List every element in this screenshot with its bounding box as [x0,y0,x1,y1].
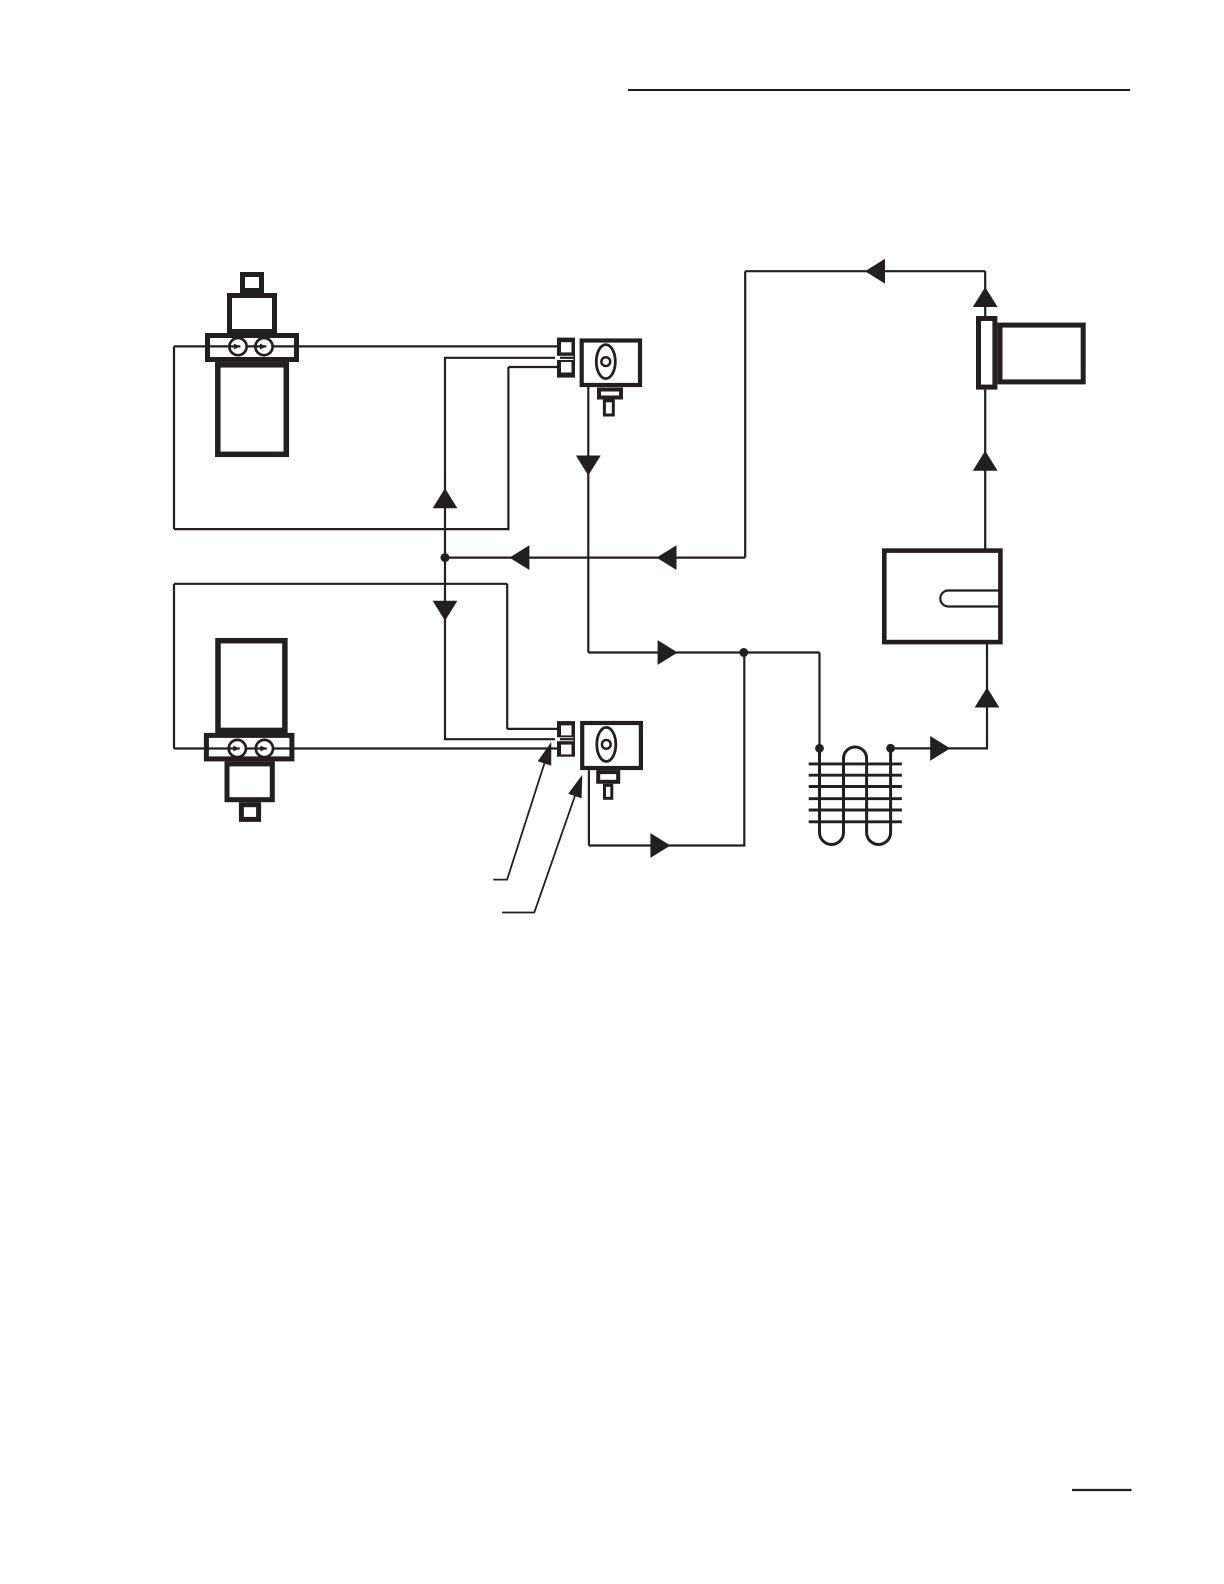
coil fin line 5 [809,809,902,812]
receiver-drier pickup tube [940,591,999,607]
flow arrow up below receiver [975,688,1000,708]
A2 port arrow 1 [233,746,239,752]
coil fin line 6 [809,820,902,823]
wire SV2 output run up to J2 [589,653,744,846]
accumulator A1 cylinder [218,365,286,455]
SV1 coil inner circle [601,357,610,366]
wire receiver to condenser coil [891,642,987,748]
wire lower loop right edge [506,584,508,729]
A1 port line gap 1 [240,345,245,348]
wire upper loop top (through A1 ports to valve SV1) [174,345,560,347]
SV2 coil ellipse [597,727,616,761]
A2 port line gap 2 [267,747,272,750]
flow arrow up to compressor [973,451,998,471]
wire upper loop right edge [507,367,509,530]
condenser coil tube [820,747,891,845]
leader arrowhead 2 [568,775,582,799]
accumulator A2 cylinder [218,641,285,731]
flow arrow left on top run [865,259,885,284]
SV2 connector slot 2 [561,745,572,755]
SV1 connector slot 2 [561,362,572,373]
wire lower loop left edge [173,584,175,749]
wire SV2 output drop [588,770,590,845]
accumulator A1 block [230,296,275,332]
compressor sleeve [979,319,995,388]
accumulator A2 port band [206,735,292,759]
A2 port line gap 1 [240,747,245,750]
SV1 stem upper [599,390,621,398]
SV1 connector slot 1 [561,342,572,352]
wire right riser up [744,271,746,557]
accumulator A2 port circle 2 [256,740,273,757]
footer rule [1072,1489,1132,1491]
accumulator A1 cap [243,275,262,291]
accumulator A2 block [227,764,272,800]
flow arrow down on J1 drop [433,601,458,621]
wire J1 down to SV2 middle slot [445,558,574,740]
wire upper loop left edge [173,346,175,529]
flow arrow up on J1 riser [433,488,458,508]
wire upper loop bottom edge [174,528,508,530]
solenoid valve SV2 body [582,723,641,768]
A2 port arrow 2 [260,746,266,752]
accumulator A1 port circle 2 [255,338,272,355]
coil outlet dot [886,744,895,753]
flow arrow right from coil [930,736,950,761]
wire coil feed drop [818,653,820,749]
SV2 connector gap [555,737,574,741]
wire compressor suction drop [984,271,986,318]
accumulator A1 port band [208,336,297,360]
SV2 stem lower [605,785,612,798]
accumulator A1 port circle 1 [229,338,246,355]
wire top run to compressor [745,270,985,272]
leader arrowhead 1 [538,742,552,766]
coil inlet dot [815,744,824,753]
wire lower loop into SV2 top slot [507,728,560,730]
receiver-drier box [884,551,1000,643]
flow arrow down on SV1 drop [576,456,601,476]
flow arrow left 2 on J1 wire [657,545,677,570]
header rule [628,89,1130,91]
wire upper loop into SV1 lower slot [508,366,560,368]
A1 port line gap 2 [266,345,271,348]
SV1 coil ellipse [596,345,615,379]
SV2 coil inner circle [602,740,611,749]
solenoid valve SV1 body [582,341,640,386]
A1 port arrow 1 [234,344,240,350]
flow arrow left 1 on J1 wire [509,545,529,570]
accumulator A2 cap [241,805,258,820]
wire SV1 drop to coil [588,651,819,653]
wire SV1 middle slot to junction J1 [445,358,574,558]
SV2 connector slot 1 [561,725,572,735]
junction dot J1 [441,553,450,562]
coil fin line 2 [809,774,902,777]
wire through A2 ports to SV2 lower slot [174,747,560,749]
wire compressor to receiver [984,387,986,550]
accumulator A2 port circle 1 [229,740,246,757]
leader line 2 [502,796,575,913]
junction dot J2 [739,648,748,657]
SV1 connector gap [555,356,574,360]
flow arrow up at compressor [973,287,998,307]
coil fin line 1 [809,762,902,765]
SV2 stem upper [598,772,618,782]
SV1 wire in gap [560,357,574,359]
coil fin line 3 [809,785,902,788]
coil fin line 4 [809,797,902,800]
solenoid valve SV1 connector [557,338,575,378]
A1 port arrow 2 [260,344,266,350]
compressor body [1000,325,1083,382]
leader line 1 [493,763,544,879]
wire junction J1 to right riser [445,556,745,558]
wire lower loop top edge [174,583,507,585]
solenoid valve SV2 connector [557,721,575,757]
SV2 wire in gap [560,738,574,740]
flow arrow right on coil feed [658,640,678,665]
SV1 stem lower [604,401,613,415]
wire SV1 output drop [587,387,589,653]
flow arrow right on SV2 output [650,833,670,858]
